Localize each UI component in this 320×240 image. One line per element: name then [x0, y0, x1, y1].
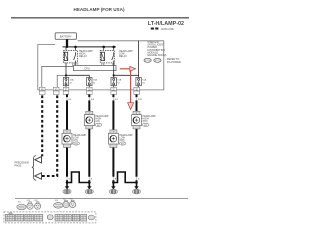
footer connector labels — [18, 199, 73, 204]
node fuse1/fuse2 feed — [65, 74, 67, 76]
pin 20 connector — [111, 87, 117, 94]
wire CAN-H from CPU to pin 48 — [42, 66, 74, 88]
wire headlamp low LH feed (thick) — [112, 94, 114, 133]
svg-text:(LH): (LH) — [95, 120, 100, 123]
node ground B — [88, 181, 91, 184]
footer connector view circle 2 — [27, 202, 33, 209]
pin 48 CAN connector (dark) — [39, 87, 45, 94]
fuse F4 15A 53 — [136, 78, 147, 86]
label headlamp high RH — [142, 115, 156, 127]
wire fuse3 to pin 20 — [113, 86, 115, 89]
relay K1 headlamp high relay — [63, 50, 77, 63]
wire fuse4 to pin 30 — [138, 86, 139, 89]
arrow to preceding page (CAN-H) — [35, 157, 42, 163]
wire headlamp high LH feed (thick) — [66, 94, 68, 133]
wire color label R/W — [138, 99, 142, 101]
svg-text:15A: 15A — [117, 78, 121, 81]
wire fuse4 feed from top edge — [138, 41, 140, 78]
svg-text:E11: E11 — [18, 202, 21, 204]
svg-text:(RH): (RH) — [119, 139, 124, 142]
footer connector view circle 3 — [35, 202, 41, 209]
lamp headlamp low RH bulb — [132, 111, 142, 129]
footer connector view oval 1 — [17, 204, 26, 210]
wire color label R/Y — [115, 99, 119, 101]
wire CAN-H data line (thick dashed) — [41, 95, 43, 156]
wire color label R/L — [68, 99, 72, 101]
relay K2 headlamp low relay — [100, 50, 114, 63]
wire bus from battery junction — [63, 46, 117, 48]
red highlight arrow down — [128, 70, 134, 109]
svg-text:ENGINE ROOM): ENGINE ROOM) — [148, 54, 167, 57]
footer detail grid hatching — [5, 214, 87, 221]
svg-text:R/W: R/W — [138, 99, 142, 101]
svg-text:E42: E42 — [75, 143, 78, 145]
svg-text:E42: E42 — [97, 125, 100, 127]
ground E21b — [109, 183, 117, 195]
svg-text:15A: 15A — [142, 78, 146, 81]
svg-text:: DATA LINE: : DATA LINE — [160, 28, 174, 31]
wire ground link LH with hop — [67, 172, 89, 183]
svg-text:E26: E26 — [55, 200, 58, 202]
wire stub to relay1 switch — [75, 47, 77, 51]
wire color label B (rh low gnd) — [138, 179, 140, 181]
footer connector view circle 5 — [63, 200, 69, 208]
svg-text:PG-POWER.: PG-POWER. — [167, 61, 182, 64]
node ground D — [135, 181, 138, 184]
node ground C — [112, 181, 115, 184]
wire low LH ground (thick) — [112, 148, 114, 183]
lamp headlamp low RH bulb2 — [108, 130, 118, 148]
pin 28 connector — [87, 87, 93, 94]
footer connector view circle 6 — [70, 200, 76, 208]
node relay2 switch feed — [112, 46, 115, 49]
fuse F2 15A 42 — [87, 78, 98, 86]
connector oval E122 — [154, 58, 161, 62]
footer connector detail dashed box — [4, 212, 96, 223]
label headlamp high relay — [79, 50, 93, 58]
wire CAN-L data line (thick dashed) — [42, 95, 58, 176]
wire low RH ground (thick) — [136, 129, 138, 183]
svg-text:PAGE: PAGE — [15, 164, 22, 167]
ground E50 — [85, 183, 93, 195]
svg-text:E26: E26 — [144, 125, 147, 127]
svg-text:LT-H/LAMP-02: LT-H/LAMP-02 — [148, 21, 184, 27]
red highlight arrow right — [120, 66, 136, 71]
svg-text:HEADLAMP (FOR USA): HEADLAMP (FOR USA) — [74, 7, 125, 12]
pin 27 connector — [63, 87, 69, 94]
svg-text:E26: E26 — [121, 143, 124, 145]
CPU box U1 — [72, 63, 116, 71]
wire stub to relay2 switch — [113, 47, 115, 51]
wire stub to relay1 coil — [65, 47, 67, 51]
node fuse3/fuse4 feed — [113, 74, 115, 76]
legend data line glyph — [151, 28, 174, 31]
svg-text:15A: 15A — [70, 78, 74, 81]
wire fuse2 to pin 28 — [88, 86, 90, 89]
fuse F3 15A 52 — [111, 78, 122, 86]
svg-text:(LH): (LH) — [73, 139, 78, 142]
title rule — [11, 17, 189, 19]
ground E21 — [63, 183, 71, 195]
wire fuse1 to pin 27 — [65, 86, 67, 89]
arrow to preceding page (CAN-L) — [35, 173, 42, 179]
connector oval E119 — [144, 58, 151, 62]
label headlamp low LH — [73, 134, 87, 146]
wire feed to fuse2 — [66, 75, 89, 77]
pin 49 CAN connector — [53, 87, 59, 94]
svg-text:(RH): (RH) — [143, 120, 148, 123]
wire battery feed (thick) — [66, 39, 68, 47]
label preceding page — [15, 162, 30, 168]
label headlamp low relay — [119, 50, 133, 58]
node relay1 switch feed — [74, 46, 77, 49]
label headlamp high LH — [95, 115, 109, 127]
wire high LH ground (thick) — [66, 148, 68, 183]
page code LT-H/LAMP-02 — [148, 21, 184, 27]
note REFER TO PG-POWER — [167, 58, 182, 64]
wire ground link RH with hop — [113, 172, 136, 183]
lamp headlamp low LH bulb — [62, 130, 72, 148]
IPDM E/R box outline — [38, 41, 164, 90]
footer detail connector cells — [5, 213, 94, 221]
fuse F1 15A 41 — [63, 78, 74, 86]
wire relay2 switch to fuse node — [113, 63, 115, 78]
wire color label R/B — [91, 99, 95, 101]
wire color label B (rh high gnd) — [91, 179, 93, 181]
svg-text:RELAY: RELAY — [119, 55, 127, 58]
wire high RH ground (thick) — [88, 129, 90, 183]
wire headlamp low RH feed (thick) — [136, 94, 138, 114]
wire feed to fuse4 — [114, 74, 139, 76]
ground E50b — [132, 183, 140, 195]
node battery junction — [66, 46, 68, 48]
pin 30 connector — [134, 87, 140, 94]
node ground A — [66, 181, 69, 184]
node relay2 coil feed — [102, 46, 105, 49]
wire relay1 coil to fuse node — [65, 63, 67, 78]
wire headlamp high RH feed (thick) — [88, 94, 90, 114]
battery B1 — [55, 33, 76, 40]
wire stub to relay2 coil — [103, 47, 105, 51]
svg-text:CPU: CPU — [84, 66, 90, 70]
wire color label B (lh high gnd) — [69, 179, 71, 181]
wire relay2 coil to CPU — [103, 63, 105, 66]
wire CAN-L from CPU to pin 49 — [57, 75, 67, 88]
label headlamp low RH — [119, 134, 133, 146]
IPDM E/R name text block — [148, 41, 167, 57]
footer separator line — [15, 198, 188, 200]
svg-text:RELAY: RELAY — [79, 55, 87, 58]
svg-text:BATTERY: BATTERY — [60, 35, 72, 39]
lamp headlamp high (LH) bulb — [84, 111, 94, 129]
wire relay1 switch to CPU — [75, 63, 77, 66]
title HEADLAMP (FOR USA) — [74, 7, 125, 12]
footer connector view oval 4 — [54, 203, 63, 209]
wire color label B (lh low gnd) — [115, 179, 117, 181]
brace preceding page — [32, 156, 36, 181]
svg-text:15A: 15A — [93, 78, 97, 81]
